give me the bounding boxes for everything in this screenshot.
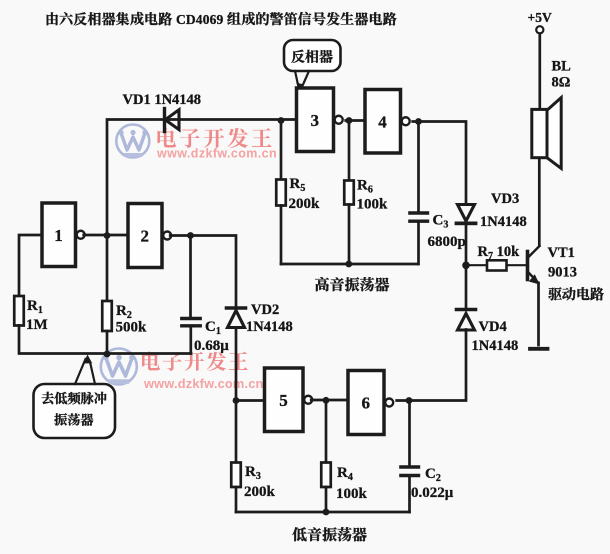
resistor R7 10k: [466, 244, 527, 271]
svg-text:反相器: 反相器: [291, 47, 333, 67]
wire VD2 to gate5 input: [235, 329, 238, 401]
svg-text:VT1: VT1: [548, 245, 575, 261]
diode VD4 1N4148: [457, 310, 519, 355]
wire VD3 to junction node: [465, 225, 468, 265]
junction C1 top: [187, 232, 194, 239]
svg-text:振荡器: 振荡器: [54, 410, 94, 429]
diode VD2 1N4148: [227, 302, 293, 335]
wire C1 bottom lead: [189, 327, 192, 354]
svg-text:8Ω: 8Ω: [552, 75, 571, 91]
wire VD1 feedback net: [107, 120, 297, 236]
svg-text:100k: 100k: [357, 197, 389, 213]
svg-text:200k: 200k: [244, 484, 276, 500]
inverter U2 (gate 2): [128, 204, 171, 268]
wire R3 to low rail: [235, 487, 238, 512]
svg-text:C1: C1: [205, 319, 221, 337]
junction VD2 / R3 / gate5: [233, 397, 240, 404]
junction gate4 input / R6 top: [346, 117, 353, 124]
svg-text:R4: R4: [337, 465, 353, 483]
wire gate3 input to R5: [280, 121, 283, 180]
wire speaker to VT1 collector: [538, 158, 541, 246]
resistor R4: [321, 463, 367, 503]
wire gate6 input to R4: [325, 401, 328, 463]
svg-text:200k: 200k: [289, 196, 321, 212]
ground: [530, 347, 548, 351]
svg-text:100k: 100k: [336, 486, 368, 502]
junction VD1 net / gate1-2 net: [104, 232, 111, 239]
wire gate5 input to R3: [235, 401, 238, 463]
capacitor C3 6800p: [410, 213, 466, 251]
+5V supply terminal: [528, 10, 552, 33]
svg-text:1N4148: 1N4148: [246, 319, 293, 335]
svg-text:9013: 9013: [548, 265, 577, 281]
svg-text:www.dzkfw.com.cn: www.dzkfw.com.cn: [143, 376, 264, 391]
svg-text:0.022μ: 0.022μ: [411, 485, 454, 501]
svg-text:www.dzkfw.com.cn: www.dzkfw.com.cn: [156, 147, 277, 161]
junction rail / R2 bottom: [104, 351, 111, 358]
wire net to R2: [106, 236, 109, 302]
svg-text:1: 1: [54, 226, 63, 245]
wire R2 to rail: [106, 331, 109, 354]
svg-text:R2: R2: [116, 303, 132, 321]
wire R5 to high rail: [280, 206, 283, 265]
svg-text:R3: R3: [245, 464, 261, 482]
svg-text:1N4148: 1N4148: [480, 214, 527, 230]
watermark logo B: [101, 349, 137, 385]
wire VT1 emitter to ground: [537, 283, 540, 345]
junction gate6 input / R4 top: [323, 397, 330, 404]
svg-text:2: 2: [141, 227, 150, 246]
svg-text:R7 10k: R7 10k: [478, 244, 521, 262]
svg-text:R5: R5: [290, 176, 306, 194]
wire gate6 out to VD4: [397, 330, 466, 401]
svg-text:4: 4: [378, 112, 387, 131]
callout 反相器 (inverter): [284, 40, 341, 92]
watermark text B: [140, 345, 264, 391]
resistor R3: [231, 463, 275, 501]
wire gate4 out to C3: [417, 122, 420, 212]
capacitor C1 0.68u: [182, 319, 229, 355]
svg-text:VD2: VD2: [251, 302, 279, 318]
wire bottom rail of pulse osc: [19, 326, 191, 354]
resistor R1: [14, 296, 47, 333]
wire gate2 out to VD2: [170, 236, 236, 307]
wire gate6 out to C2: [408, 401, 411, 466]
svg-text:由六反相器集成电路 CD4069 组成的警笛信号发生器电路: 由六反相器集成电路 CD4069 组成的警笛信号发生器电路: [45, 9, 397, 29]
svg-text:C3: C3: [433, 213, 449, 231]
inverter U6 (gate 6): [348, 371, 393, 435]
wire low oscillator rail: [236, 511, 410, 514]
diode VD1 1N4148: [123, 92, 202, 132]
wire gate4 out to VD3: [413, 122, 466, 205]
svg-text:VD4: VD4: [479, 319, 507, 335]
junction C2 top / gate6 output: [406, 397, 413, 404]
wire R4 to low rail: [325, 487, 328, 512]
svg-text:5: 5: [279, 391, 288, 410]
svg-text:500k: 500k: [116, 320, 148, 336]
svg-text:BL: BL: [552, 59, 572, 75]
speaker BL 8ohm: [532, 59, 571, 169]
capacitor C2 0.022u: [401, 466, 454, 501]
wire R6 to high rail: [348, 205, 351, 265]
callout 去低频脉冲振荡器: [34, 355, 116, 439]
svg-text:C2: C2: [425, 466, 441, 484]
svg-text:高音振荡器: 高音振荡器: [315, 274, 390, 295]
svg-text:R6: R6: [357, 178, 373, 196]
svg-text:1N4148: 1N4148: [472, 338, 519, 354]
wire gate1 out to gate2 in: [84, 234, 128, 237]
junction R5 top (gate3 input): [278, 117, 285, 124]
inverter U3 (gate 3): [297, 88, 343, 152]
svg-text:1M: 1M: [26, 317, 48, 333]
resistor R6: [344, 178, 388, 213]
inverter U4 (gate 4): [365, 90, 410, 154]
junction R6 bottom on rail: [345, 261, 352, 268]
diode VD3 1N4148: [457, 191, 527, 230]
svg-text:+5V: +5V: [528, 10, 552, 25]
svg-text:VD3: VD3: [491, 191, 519, 207]
watermark logo A: [116, 125, 149, 158]
junction C3 top / gate4 output: [415, 118, 422, 125]
wire VD3 bar redraw: [457, 222, 476, 226]
svg-text:6: 6: [362, 394, 371, 413]
wire node to VD4: [465, 265, 468, 307]
junction diode-OR node: [462, 262, 470, 270]
svg-text:去低频脉冲: 去低频脉冲: [41, 388, 107, 407]
transistor VT1 9013: [528, 245, 605, 304]
svg-text:VD1 1N4148: VD1 1N4148: [123, 92, 202, 108]
svg-text:驱动电路: 驱动电路: [548, 284, 604, 304]
resistor R2: [102, 301, 147, 336]
wire high oscillator rail: [281, 263, 418, 266]
wire gate4 input to R6: [348, 121, 351, 181]
wire gate5 out to gate6 in: [311, 399, 348, 402]
wire C2 to low rail: [408, 478, 411, 513]
svg-text:低音振荡器: 低音振荡器: [292, 524, 367, 545]
resistor R5: [276, 176, 320, 212]
wire +5V to speaker: [538, 34, 541, 109]
wire C1 top lead: [189, 236, 192, 318]
inverter U1 (gate 1): [42, 203, 85, 267]
svg-text:3: 3: [311, 111, 320, 130]
inverter U5 (gate 5): [265, 368, 313, 432]
wire C3 to high rail: [417, 223, 420, 264]
svg-text:0.68μ: 0.68μ: [194, 338, 229, 354]
junction R4 bottom on rail: [323, 509, 330, 516]
wire gate3 out to gate4 in: [346, 119, 365, 122]
wire to gate5 input: [236, 399, 265, 402]
wire gate1 input left leg: [19, 235, 42, 296]
watermark text A: [155, 122, 277, 161]
svg-text:R1: R1: [27, 298, 43, 316]
svg-text:6800p: 6800p: [428, 234, 466, 250]
